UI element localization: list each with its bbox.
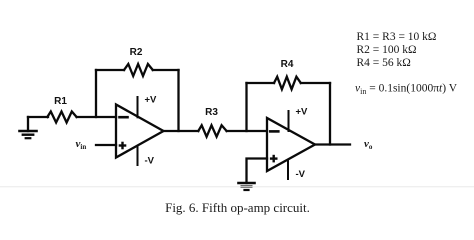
svg-text:vin = 0.1sin(1000πt) V: vin = 0.1sin(1000πt) V: [355, 83, 458, 97]
wire R4 top rail right: [301, 82, 330, 84]
svg-text:-V: -V: [145, 156, 155, 167]
svg-text:+V: +V: [296, 107, 309, 118]
svg-text:R1: R1: [54, 96, 67, 107]
wire feedback top rail left: [96, 69, 124, 71]
U2 plus input symbol: [270, 155, 278, 163]
wire R4 left leg: [245, 83, 247, 131]
op-amp U2: [267, 118, 315, 171]
ground GND2: [239, 183, 255, 190]
svg-text:R4 = 56 kΩ: R4 = 56 kΩ: [357, 57, 411, 69]
svg-text:R4: R4: [281, 59, 294, 70]
wire feedback top rail right: [153, 69, 179, 71]
svg-text:Fig. 6. Fifth op-amp circuit.: Fig. 6. Fifth op-amp circuit.: [165, 200, 310, 215]
svg-text:R2 = 100 kΩ: R2 = 100 kΩ: [357, 44, 417, 56]
resistor R3: [198, 125, 226, 136]
svg-text:-V: -V: [296, 169, 306, 180]
svg-text:R2: R2: [130, 47, 143, 58]
U1 -V pin: [137, 147, 139, 165]
wire R4 top rail left: [247, 82, 275, 84]
op-amp U1: [116, 105, 164, 158]
wire R4 right leg down to output: [329, 83, 331, 145]
U1 plus input symbol: [119, 142, 127, 150]
wire ground to R1: [28, 116, 48, 118]
wire vin lead: [96, 144, 116, 146]
resistor R1: [47, 112, 76, 123]
scan artifact line: [0, 186, 474, 187]
wire U1 output to R3: [164, 130, 199, 132]
svg-text:R3: R3: [205, 107, 218, 118]
ground GND1: [20, 117, 37, 138]
U2 +V pin: [288, 111, 290, 131]
svg-text:+V: +V: [145, 95, 158, 106]
U2 minus input symbol: [270, 130, 278, 133]
U1 +V pin: [137, 97, 139, 117]
svg-text:R1 = R3 = 10 kΩ: R1 = R3 = 10 kΩ: [357, 31, 437, 43]
wire R2 right leg down to output: [177, 70, 179, 131]
wire U2 plus input to ground: [247, 159, 268, 184]
U1 minus input symbol: [120, 116, 128, 119]
wire R3 to U2 inverting input: [227, 130, 267, 132]
svg-text:vin: vin: [76, 138, 87, 151]
svg-text:vo: vo: [364, 138, 373, 151]
wire R1 to inverting input node: [77, 116, 116, 118]
wire R2 left leg (node A up to feedback rail): [95, 70, 97, 117]
resistor R2: [124, 64, 153, 76]
U2 -V pin: [287, 161, 289, 180]
resistor R4: [274, 77, 301, 90]
wire U2 output: [315, 143, 350, 145]
